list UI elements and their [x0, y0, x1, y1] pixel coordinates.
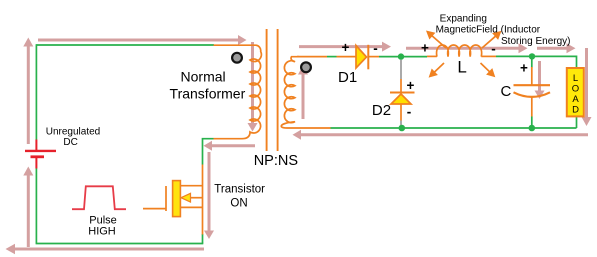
pulse waveform: [72, 186, 126, 209]
diode D1: [356, 45, 368, 70]
svg-text:Transistor: Transistor: [214, 184, 265, 196]
D2 cathode bar: [390, 92, 415, 94]
svg-text:Storing Energy): Storing Energy): [501, 36, 570, 47]
flow arrow down at C: [535, 61, 545, 99]
svg-text:ON: ON: [230, 197, 247, 209]
flow arrow up-left-upper: [23, 38, 33, 145]
LOAD letters: [572, 73, 580, 116]
wire D2 anode to bottom: [400, 121, 402, 126]
svg-text:L: L: [573, 73, 578, 84]
wire mosfet source to bottom: [202, 234, 204, 244]
labels: [46, 127, 100, 148]
L radiating arrow down-right: [481, 63, 496, 77]
flow arrow up-left-lower: [23, 167, 33, 248]
transformer primary winding: [214, 45, 262, 139]
wire primary coil bottom to mosfet drain: [203, 139, 214, 165]
svg-text:-: -: [491, 41, 496, 56]
mosfet body lead: [190, 197, 203, 199]
wire secondary top green segment 1: [327, 56, 337, 58]
battery (unregulated DC source): [25, 140, 56, 169]
svg-text:+: +: [421, 41, 429, 56]
node dot bottom C: [529, 125, 536, 132]
C top plate: [514, 84, 551, 86]
mosfet right vertical: [202, 165, 204, 235]
L radiating arrow down-left: [429, 63, 444, 78]
svg-text:DC: DC: [63, 137, 77, 148]
L radiating arrow up-left: [426, 31, 446, 49]
svg-text:-: -: [373, 41, 378, 56]
wire primary left lower: [35, 169, 37, 244]
wire C bottom stub: [531, 98, 533, 117]
wire C branch bottom green: [531, 117, 533, 129]
transformer secondary winding: [281, 57, 330, 128]
svg-text:NP:NS: NP:NS: [254, 153, 298, 169]
transformer core left line: [266, 29, 268, 151]
L radiating arrow up-right: [482, 31, 502, 48]
flow arrow right at D1: [299, 42, 391, 52]
transformer core right line: [277, 29, 279, 151]
svg-text:+: +: [407, 78, 415, 93]
wire D2 bottom stub: [400, 104, 402, 121]
diode D2: [391, 94, 411, 104]
flow arrow right at L: [406, 43, 528, 53]
wire secondary coil to top: [297, 56, 327, 58]
flow arrow down through primary coil: [248, 42, 258, 132]
mosfet gate bar: [165, 186, 167, 211]
inductor L humps: [437, 45, 482, 57]
svg-text:D1: D1: [338, 69, 357, 86]
polarity signs: [342, 40, 529, 119]
orange wires and components: [143, 29, 550, 235]
svg-text:+: +: [520, 61, 528, 76]
svg-text:D2: D2: [372, 102, 391, 119]
node dot top C: [529, 53, 535, 59]
wire secondary top green segment 2: [379, 56, 427, 58]
svg-text:MagneticField (Inductor: MagneticField (Inductor: [436, 25, 541, 36]
flow arrow right before load: [537, 43, 576, 53]
svg-text:+: +: [342, 40, 350, 55]
flow arrow down mosfet: [204, 152, 214, 239]
mosfet body arrow: [181, 193, 191, 202]
wire into D1 anode: [337, 56, 357, 58]
wire primary bottom: [36, 243, 204, 245]
wire node to D2 cathode: [400, 60, 402, 79]
flow arrow bottom-primary left: [6, 244, 205, 255]
svg-text:Transformer: Transformer: [170, 85, 246, 101]
mosfet drain lead: [180, 185, 202, 187]
wire D2 top stub: [400, 79, 402, 92]
grey wires at D2: [400, 60, 402, 125]
wire secondary top green segment 3: [496, 56, 577, 67]
mosfet gate lead: [143, 208, 166, 210]
phase dot secondary: [301, 62, 311, 72]
svg-text:A: A: [572, 94, 579, 105]
svg-text:-: -: [407, 104, 412, 119]
flow arrow up secondary coil: [298, 66, 308, 120]
label normal transformer: [170, 68, 246, 101]
wire load bottom: [576, 116, 578, 129]
svg-text:O: O: [572, 84, 579, 95]
flow arrow bottom-secondary left: [293, 130, 589, 140]
flow arrow top-primary right: [38, 35, 247, 45]
wire D1 cathode out: [369, 56, 379, 58]
wire out of L: [481, 55, 496, 57]
phase dot primary: [232, 53, 242, 63]
wire into L: [427, 55, 437, 57]
flow arrow down right of load: [582, 48, 592, 126]
mosfet channel bar: [173, 181, 181, 217]
node dot bottom D2: [399, 125, 406, 132]
C bottom curved plate: [514, 92, 551, 97]
wire primary left upper: [35, 44, 37, 139]
node dot top D2: [398, 53, 404, 59]
svg-text:Normal: Normal: [181, 68, 226, 84]
svg-text:C: C: [501, 83, 512, 100]
wire primary top: [36, 44, 214, 46]
green wires: [36, 44, 577, 243]
mosfet source lead: [180, 206, 202, 208]
flow arrow left above mosfet: [204, 141, 256, 151]
svg-text:L: L: [457, 58, 466, 77]
wire C branch top green: [531, 56, 533, 67]
LOAD box: [567, 68, 584, 116]
wire secondary bottom: [331, 127, 577, 129]
svg-text:D: D: [572, 105, 579, 116]
svg-text:Expanding: Expanding: [440, 13, 487, 24]
wire C top stub: [531, 67, 533, 85]
svg-text:HIGH: HIGH: [88, 225, 116, 237]
